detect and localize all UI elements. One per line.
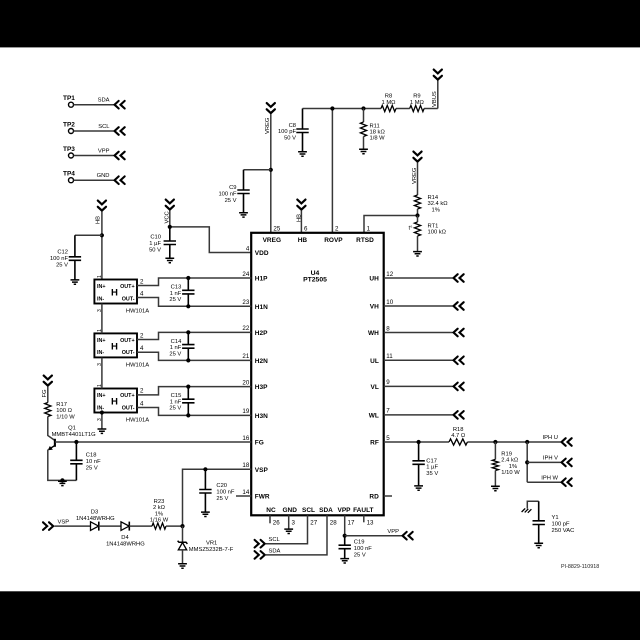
svg-text:SCL: SCL <box>302 507 315 514</box>
svg-text:25 V: 25 V <box>86 465 98 471</box>
svg-text:5: 5 <box>386 435 390 442</box>
svg-text:1/10 W: 1/10 W <box>501 470 520 476</box>
svg-text:25 V: 25 V <box>216 496 228 502</box>
wire UH output <box>384 277 453 279</box>
svg-text:1: 1 <box>367 225 371 232</box>
ground <box>340 559 349 563</box>
svg-text:FG: FG <box>42 389 48 398</box>
resistor R14 <box>414 195 420 209</box>
svg-text:IPH U: IPH U <box>543 435 558 441</box>
junction emitter ground <box>60 478 64 482</box>
wire VPP to connector <box>345 535 402 537</box>
svg-text:HW101A: HW101A <box>126 309 149 315</box>
svg-text:FG: FG <box>255 440 264 447</box>
svg-text:IN+: IN+ <box>97 393 106 399</box>
junction C13 bottom <box>186 304 190 308</box>
svg-text:21: 21 <box>242 353 249 360</box>
svg-text:100 kΩ: 100 kΩ <box>428 230 447 236</box>
svg-text:SCL: SCL <box>269 537 281 543</box>
wire SCL pin 27 <box>266 515 308 543</box>
ground <box>201 512 210 516</box>
wire TP1 to SDA <box>74 104 114 106</box>
svg-text:GND: GND <box>97 173 110 179</box>
wire RD stub <box>384 495 392 497</box>
test point TP2 <box>69 129 74 134</box>
svg-text:4: 4 <box>246 245 250 252</box>
svg-text:1N4148WRHG: 1N4148WRHG <box>106 542 145 548</box>
wire IPH branch vertical <box>526 442 528 482</box>
hall sensor 2 HW101A body <box>94 333 137 357</box>
svg-text:2 kΩ: 2 kΩ <box>153 505 166 511</box>
off-page connector VL <box>454 383 464 391</box>
svg-text:TP4: TP4 <box>63 171 75 178</box>
off-page connector UL <box>454 357 464 365</box>
ground <box>165 258 174 262</box>
svg-text:H2N: H2N <box>255 358 268 365</box>
svg-text:TP1: TP1 <box>63 95 75 102</box>
svg-text:HB: HB <box>298 237 308 244</box>
svg-text:1 MΩ: 1 MΩ <box>382 100 397 106</box>
svg-text:WL: WL <box>369 413 379 420</box>
wire TP3 to VPP <box>74 155 114 157</box>
svg-text:H: H <box>111 342 118 353</box>
wire FG to R17 <box>47 387 49 403</box>
svg-text:C17: C17 <box>426 458 437 464</box>
svg-text:FWR: FWR <box>255 494 270 501</box>
svg-text:100 nF: 100 nF <box>354 546 373 552</box>
junction R11 <box>361 106 365 110</box>
svg-text:HW101A: HW101A <box>126 418 149 424</box>
junction IPH V <box>525 460 529 464</box>
off-page connector SCL <box>255 540 265 548</box>
hall sensor 1 OUT+ wire pin 2 <box>137 278 251 286</box>
resistor R8 <box>381 105 396 111</box>
svg-text:H1N: H1N <box>255 304 268 311</box>
wire TP4 to GND <box>74 179 114 181</box>
svg-text:R19: R19 <box>501 451 512 457</box>
junction ROVP <box>330 106 334 110</box>
junction RTSD divider <box>415 213 419 217</box>
hall sensor 1 OUT- wire pin 4 <box>137 298 251 307</box>
svg-text:1 µF: 1 µF <box>426 465 438 471</box>
junction C13 top <box>186 276 190 280</box>
power arrow VCC <box>166 200 174 210</box>
wire VCC to VDD pin 4 <box>169 211 171 227</box>
power arrow FG <box>44 376 52 386</box>
svg-text:OUT+: OUT+ <box>120 393 135 399</box>
junction C14 bottom <box>186 358 190 362</box>
power arrow HB (left) <box>98 201 106 211</box>
svg-text:H3N: H3N <box>255 413 268 420</box>
svg-text:C18: C18 <box>86 453 97 459</box>
wire RTSD pin 1 to divider <box>364 216 418 233</box>
svg-text:C9: C9 <box>229 185 236 191</box>
svg-text:32.4 kΩ: 32.4 kΩ <box>428 201 449 207</box>
svg-text:22: 22 <box>242 325 249 332</box>
wire WL output <box>384 414 453 416</box>
off-page connector IPH V <box>562 459 572 467</box>
off-page connector SDA <box>255 551 265 559</box>
svg-text:250 VAC: 250 VAC <box>552 528 575 534</box>
svg-text:SDA: SDA <box>319 507 333 514</box>
transistor Q1 <box>54 439 56 447</box>
svg-text:Y1: Y1 <box>552 515 559 521</box>
wire Y1 top <box>527 501 538 508</box>
resistor R17 <box>45 403 51 417</box>
svg-text:OUT+: OUT+ <box>120 284 135 290</box>
junction VPP/C19 <box>343 534 347 538</box>
svg-text:UH: UH <box>369 276 379 283</box>
chassis earth <box>522 508 532 512</box>
svg-text:13: 13 <box>367 520 374 527</box>
svg-text:C8: C8 <box>289 123 296 129</box>
svg-text:10 nF: 10 nF <box>86 459 101 465</box>
ground <box>178 564 187 568</box>
svg-text:1 nF: 1 nF <box>170 291 182 297</box>
svg-text:VR1: VR1 <box>206 541 217 547</box>
svg-text:1%: 1% <box>155 511 163 517</box>
wire GND pin 3 <box>288 515 290 529</box>
svg-text:TP2: TP2 <box>63 121 75 128</box>
junction C12 tap <box>100 233 104 237</box>
wire VREG to R14 <box>417 163 419 196</box>
junction C14 top <box>186 330 190 334</box>
wire IPH V <box>527 461 560 463</box>
diode D3 <box>91 522 99 531</box>
svg-text:OUT-: OUT- <box>122 350 135 356</box>
svg-text:100 nF: 100 nF <box>50 256 69 262</box>
wire hall 1 to hall 2 <box>101 304 103 334</box>
svg-text:H: H <box>111 288 118 299</box>
svg-text:IPH W: IPH W <box>541 475 558 481</box>
svg-text:IN+: IN+ <box>97 338 106 344</box>
op-amp U4 PT2505 body <box>251 233 384 516</box>
svg-text:14: 14 <box>242 489 249 496</box>
power arrow HB (top) <box>297 200 305 210</box>
resistor R9 <box>410 105 424 111</box>
svg-text:R23: R23 <box>154 499 165 505</box>
power arrow VREG (right) <box>413 152 421 162</box>
off-page connector VPP <box>403 532 413 540</box>
svg-text:2: 2 <box>335 225 339 232</box>
svg-text:1/10 W: 1/10 W <box>56 414 75 420</box>
power arrow VREG <box>267 103 275 113</box>
svg-text:VDD: VDD <box>255 250 269 257</box>
hall sensor 3 OUT+ wire pin 2 <box>137 387 251 395</box>
off-page connector SDA <box>115 101 125 109</box>
junction VSP node <box>180 524 184 528</box>
svg-text:19: 19 <box>242 408 249 415</box>
capacitor C14 <box>182 332 194 360</box>
svg-text:25: 25 <box>273 225 280 232</box>
svg-text:OUT-: OUT- <box>122 405 135 411</box>
svg-text:4: 4 <box>140 290 144 297</box>
junction R19 <box>493 440 497 444</box>
svg-text:C20: C20 <box>216 483 227 489</box>
resistor R23 <box>152 523 166 529</box>
wire WH output <box>384 332 453 334</box>
ground <box>491 486 500 490</box>
wire hall 2 to hall 3 <box>101 358 103 389</box>
svg-text:17: 17 <box>348 520 355 527</box>
wire FWR stub <box>236 495 251 497</box>
svg-text:VL: VL <box>370 384 378 391</box>
wire D4 to R23 <box>129 525 152 527</box>
svg-text:1%: 1% <box>509 464 517 470</box>
svg-text:IN-: IN- <box>97 350 104 356</box>
svg-text:100 pF: 100 pF <box>552 521 571 527</box>
svg-text:1/16 W: 1/16 W <box>150 518 169 524</box>
junction C17 <box>417 440 421 444</box>
wire VSP to D3 <box>55 525 91 527</box>
svg-text:1: 1 <box>97 275 103 278</box>
test point TP1 <box>69 102 74 107</box>
svg-text:RD: RD <box>369 494 379 501</box>
off-page connector WH <box>454 329 464 337</box>
svg-text:PT2505: PT2505 <box>303 277 327 284</box>
Q1 base wire to FG pin 16 <box>55 441 251 443</box>
svg-text:4.7 Ω: 4.7 Ω <box>451 433 466 439</box>
svg-text:PI-8829-110918: PI-8829-110918 <box>561 564 599 570</box>
wire R17 to Q1 collector <box>48 417 55 441</box>
svg-text:100 nF: 100 nF <box>216 489 235 495</box>
svg-text:C15: C15 <box>171 393 182 399</box>
svg-text:MMSZ5232B-7-F: MMSZ5232B-7-F <box>189 547 234 553</box>
svg-text:1/8 W: 1/8 W <box>370 136 386 142</box>
off-page connector GND <box>115 176 125 184</box>
capacitor C17 <box>412 442 424 486</box>
test point TP4 <box>69 178 74 183</box>
wire SDA pin 28 <box>266 515 327 555</box>
svg-text:WH: WH <box>368 330 379 337</box>
svg-text:1%: 1% <box>432 207 440 213</box>
capacitor C12 <box>75 234 102 236</box>
svg-text:SCL: SCL <box>98 124 110 130</box>
svg-text:R9: R9 <box>413 94 420 100</box>
svg-text:H2P: H2P <box>255 330 268 337</box>
ground <box>58 481 67 485</box>
capacitor C18 <box>70 442 82 480</box>
wire HB to pin 6 <box>300 211 302 233</box>
capacitor C13 <box>182 278 194 306</box>
capacitor Y1 <box>533 501 545 543</box>
svg-text:100 pF: 100 pF <box>278 129 297 135</box>
svg-text:IN-: IN- <box>97 296 104 302</box>
svg-text:8: 8 <box>386 325 390 332</box>
svg-text:VREG: VREG <box>263 237 281 244</box>
svg-text:24: 24 <box>242 271 249 278</box>
off-page connector VPP <box>115 152 125 160</box>
ground <box>71 280 80 284</box>
svg-text:IN+: IN+ <box>97 284 106 290</box>
svg-text:16: 16 <box>242 435 249 442</box>
svg-text:25 V: 25 V <box>169 352 181 358</box>
junction VREG/C9 <box>269 168 273 172</box>
ground <box>239 213 248 217</box>
svg-text:C14: C14 <box>171 339 182 345</box>
svg-text:VSP: VSP <box>255 467 269 474</box>
svg-text:VSP: VSP <box>58 519 70 525</box>
svg-text:1N4148WRHG: 1N4148WRHG <box>76 516 115 522</box>
svg-text:100 nF: 100 nF <box>218 192 237 198</box>
svg-text:H1P: H1P <box>255 276 268 283</box>
svg-text:C19: C19 <box>354 540 365 546</box>
svg-text:VPP: VPP <box>337 507 351 514</box>
svg-text:HW101A: HW101A <box>126 362 149 368</box>
wire to VBUS <box>437 81 439 109</box>
svg-text:TP3: TP3 <box>63 146 75 153</box>
svg-text:2: 2 <box>140 278 144 285</box>
svg-text:7: 7 <box>386 408 390 415</box>
svg-text:RTSD: RTSD <box>356 237 374 244</box>
wire VSP pin 18 <box>183 469 252 526</box>
svg-text:D3: D3 <box>91 510 98 516</box>
svg-text:OUT+: OUT+ <box>120 338 135 344</box>
svg-text:50 V: 50 V <box>284 135 296 141</box>
svg-text:25 V: 25 V <box>56 262 68 268</box>
svg-text:27: 27 <box>310 520 317 527</box>
diode D4 <box>121 522 129 531</box>
svg-text:25 V: 25 V <box>169 297 181 303</box>
capacitor C19 <box>339 536 351 559</box>
capacitor C20 <box>199 469 211 512</box>
ground <box>414 486 423 490</box>
ground <box>284 529 293 533</box>
svg-text:ROVP: ROVP <box>324 237 343 244</box>
svg-text:H: H <box>111 397 118 408</box>
junction C20 tap <box>203 467 207 471</box>
svg-text:RT1: RT1 <box>428 224 439 230</box>
svg-text:1 nF: 1 nF <box>170 345 182 351</box>
junction C15 top <box>186 385 190 389</box>
capacitor C15 <box>182 387 194 416</box>
svg-text:IN-: IN- <box>97 405 104 411</box>
wire TP2 to SCL <box>74 130 114 132</box>
svg-text:3: 3 <box>292 520 296 527</box>
svg-text:4: 4 <box>140 400 144 407</box>
off-page connector VH <box>454 302 464 310</box>
svg-text:MMBT4401LT1G: MMBT4401LT1G <box>52 432 97 438</box>
svg-text:VREG: VREG <box>265 117 271 134</box>
svg-text:2.4 kΩ: 2.4 kΩ <box>501 458 519 464</box>
svg-text:VH: VH <box>370 304 379 311</box>
svg-text:23: 23 <box>242 299 249 306</box>
junction C18 top <box>74 440 78 444</box>
ground <box>298 152 307 156</box>
svg-text:100 Ω: 100 Ω <box>56 408 72 414</box>
wire VH output <box>384 305 453 307</box>
wire D3 to D4 <box>99 525 121 527</box>
hall sensor 2 OUT- wire pin 4 <box>137 352 251 360</box>
svg-text:2: 2 <box>140 388 144 395</box>
svg-text:UL: UL <box>370 358 379 365</box>
svg-text:4: 4 <box>140 345 144 352</box>
svg-text:20: 20 <box>242 379 249 386</box>
svg-text:C13: C13 <box>171 285 182 291</box>
off-page connector IPH W <box>562 478 572 486</box>
off-page connector WL <box>454 411 464 419</box>
svg-text:6: 6 <box>304 225 308 232</box>
wire ROVP node horizontal <box>303 108 382 110</box>
svg-text:VBUS: VBUS <box>432 91 438 107</box>
power arrow VBUS <box>434 70 442 80</box>
hall sensor 2 OUT+ wire pin 2 <box>137 332 251 339</box>
junction VCC/C10 <box>168 225 172 229</box>
svg-text:12: 12 <box>386 271 393 278</box>
wire HB rail down to hall sensors <box>101 212 103 280</box>
svg-text:25 V: 25 V <box>354 552 366 558</box>
wire VREG to pin 25 <box>270 114 272 233</box>
svg-text:D4: D4 <box>121 535 129 541</box>
ground <box>413 252 422 256</box>
junction C15 bottom <box>186 413 190 417</box>
wire IPH W <box>527 481 560 483</box>
svg-text:R14: R14 <box>428 195 439 201</box>
zener diode VR1 <box>182 526 184 542</box>
svg-text:9: 9 <box>386 379 390 386</box>
svg-text:SDA: SDA <box>269 548 281 554</box>
svg-text:RF: RF <box>370 440 379 447</box>
svg-text:18: 18 <box>242 462 249 469</box>
svg-text:IPH V: IPH V <box>543 456 558 462</box>
ground <box>98 429 107 433</box>
svg-text:C10: C10 <box>150 235 161 241</box>
test point TP3 <box>69 153 74 158</box>
wire FAULT stub <box>363 515 365 522</box>
svg-text:VPP: VPP <box>98 148 110 154</box>
off-page connector SCL <box>115 127 125 135</box>
svg-text:1 µF: 1 µF <box>149 241 161 247</box>
hall sensor 1 HW101A body <box>94 280 137 304</box>
svg-text:H3P: H3P <box>255 384 268 391</box>
thermistor RT1 <box>417 216 419 223</box>
svg-text:R8: R8 <box>385 94 392 100</box>
svg-text:10: 10 <box>386 299 393 306</box>
off-page connector VSP <box>43 522 53 530</box>
svg-text:t°: t° <box>409 226 413 232</box>
off-page connector UH <box>454 274 464 282</box>
svg-text:R18: R18 <box>453 427 464 433</box>
svg-text:FAULT: FAULT <box>353 507 373 514</box>
svg-text:25 V: 25 V <box>225 198 237 204</box>
svg-text:OUT-: OUT- <box>122 296 135 302</box>
hall sensor 3 OUT- wire pin 4 <box>137 408 251 416</box>
svg-text:1 nF: 1 nF <box>170 399 182 405</box>
svg-text:NC: NC <box>266 507 276 514</box>
capacitor C8 <box>296 109 308 152</box>
svg-text:2: 2 <box>140 332 144 339</box>
Q1 emitter <box>49 445 55 449</box>
svg-text:50 V: 50 V <box>149 248 161 254</box>
svg-text:SDA: SDA <box>98 98 110 104</box>
wire RF pin 5 <box>384 441 449 443</box>
ground <box>359 149 368 153</box>
resistor R19 <box>494 442 496 459</box>
wire VPP pin 17 <box>344 515 346 535</box>
svg-text:28: 28 <box>330 520 337 527</box>
wire NC stub <box>269 515 271 523</box>
svg-text:R17: R17 <box>56 402 67 408</box>
ground <box>534 543 543 547</box>
svg-text:11: 11 <box>386 353 393 360</box>
wire hall 3 to ground <box>101 413 103 429</box>
svg-text:HB: HB <box>96 216 102 224</box>
svg-text:GND: GND <box>282 507 297 514</box>
wire VL output <box>384 385 453 387</box>
hall sensor 3 HW101A body <box>94 389 137 413</box>
capacitor C9 <box>244 169 271 171</box>
wire R23 to VR1 node <box>166 525 183 527</box>
